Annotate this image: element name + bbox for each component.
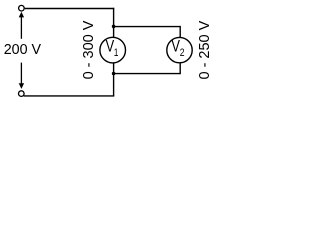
polarity arrow up (toward T1) [19, 12, 24, 39]
wire down to V2 top [179, 26, 181, 37]
wire up to V2 bottom [179, 63, 181, 74]
wire V1 bottom to node B [113, 63, 115, 73]
terminal T1 (top-left input) [19, 5, 25, 11]
wire node B to V2 branch [114, 73, 181, 75]
polarity arrow down (toward T2) [19, 63, 24, 89]
node A (junction dot) [112, 25, 116, 29]
voltmeter V2 [167, 37, 192, 62]
svg-text:200 V: 200 V [4, 42, 42, 58]
wire top rail [25, 8, 114, 10]
node B (junction dot) [112, 72, 116, 76]
wire top-right corner down to node A [113, 8, 115, 27]
wire node A to V2 branch [114, 26, 181, 28]
voltmeter V1 [100, 37, 126, 63]
terminal T2 (bottom-left input) [19, 91, 25, 97]
wire bottom rail [24, 95, 115, 97]
svg-text:0 - 250 V: 0 - 250 V [197, 20, 213, 79]
wire node A to V1 top [113, 27, 115, 38]
svg-text:0 - 300 V: 0 - 300 V [81, 20, 97, 79]
wire node B down to bottom rail [113, 74, 115, 97]
